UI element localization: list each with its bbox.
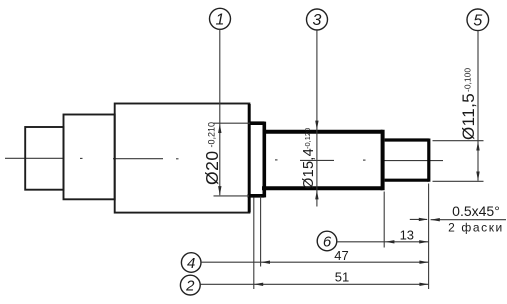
svg-text:4: 4 [187, 255, 195, 272]
47 extension line [260, 197, 262, 267]
shaft section C right face (thick) [248, 104, 251, 212]
end section Ø11.5 [385, 139, 429, 182]
svg-text:-0,210: -0,210 [206, 122, 216, 148]
svg-text:13: 13 [400, 227, 414, 242]
dimension Ø15.4 leader/dim line [316, 30, 318, 206]
callout circle 5 [467, 9, 489, 31]
sleeve Ø15.4 section (thick outline) [262, 130, 383, 190]
callout circle 3 [307, 9, 328, 30]
callout circle 1 [210, 8, 231, 29]
dimension Ø11.5 leader/dim line [477, 31, 479, 181]
svg-text:-0,100: -0,100 [463, 68, 473, 92]
dimension 51 line with callout-2 leader [200, 283, 428, 285]
svg-text:6: 6 [323, 233, 332, 250]
svg-text:Ø11,5: Ø11,5 [459, 93, 478, 140]
svg-text:2: 2 [185, 277, 195, 294]
dimension Ø20 leader/dim line [219, 29, 221, 195]
shaft step Ø20 section [248, 122, 265, 198]
chamfer dimension arrows [410, 218, 427, 220]
Ø20 arrowheads [218, 124, 221, 133]
Ø15.4 value label (rotated) [301, 128, 317, 189]
svg-text:-0,120: -0,120 [303, 128, 312, 149]
shaft section C (largest) [115, 104, 250, 213]
Ø15.4 arrowheads (outside, pointing inward) [315, 121, 318, 130]
callout circle 4 [181, 253, 201, 273]
svg-text:51: 51 [335, 269, 349, 284]
13 extension line [383, 192, 385, 248]
svg-text:5: 5 [473, 13, 482, 30]
Ø20 value label (rotated) [202, 122, 222, 185]
callout circle 2 [180, 275, 200, 295]
svg-text:0.5x45°: 0.5x45° [452, 203, 500, 219]
svg-text:Ø20: Ø20 [202, 150, 222, 185]
callout circle 6 [317, 231, 337, 251]
svg-text:2 фаски: 2 фаски [448, 221, 504, 235]
dimension 47 line with callout-4 leader [201, 261, 429, 263]
shaft section A (left small) [25, 127, 63, 190]
svg-text:47: 47 [334, 248, 348, 263]
Ø20 extension lines [214, 122, 251, 124]
centerline axis [5, 158, 443, 160]
svg-text:3: 3 [313, 12, 322, 29]
shared right extension line [428, 184, 430, 290]
dimension 13 line with callout-6 leader [337, 241, 428, 243]
svg-text:Ø15,4: Ø15,4 [301, 148, 317, 189]
Ø11.5 value label (rotated) [459, 68, 478, 140]
Ø11.5 arrowheads [476, 141, 479, 150]
51 extension line [253, 198, 255, 290]
shaft section B [64, 115, 115, 200]
Ø11.5 extension lines [433, 140, 484, 142]
svg-text:1: 1 [216, 12, 225, 29]
